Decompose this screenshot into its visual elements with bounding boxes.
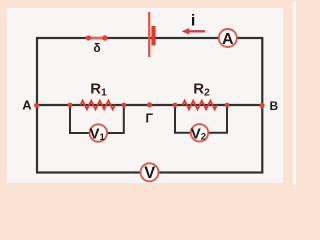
- wire V2 sub-loop right: [208, 105, 227, 133]
- svg-text:A: A: [222, 31, 234, 48]
- resistor R2: [183, 101, 217, 110]
- node Γ: [147, 102, 152, 107]
- current arrow: [182, 28, 205, 35]
- junction dot R1 left: [68, 103, 73, 108]
- svg-text:A: A: [22, 98, 32, 113]
- wire V1 sub-loop right: [107, 105, 124, 133]
- junction dot R2 right: [225, 103, 230, 108]
- svg-text:Γ: Γ: [146, 111, 154, 125]
- voltmeter V1: [90, 124, 107, 143]
- voltmeter V2: [191, 124, 208, 142]
- wire outer loop: [37, 38, 262, 173]
- wire V2 sub-loop left: [175, 105, 191, 133]
- svg-text:δ: δ: [93, 41, 100, 55]
- wire V1 sub-loop left: [70, 105, 90, 133]
- battery cell (top middle): [149, 12, 155, 57]
- junction dot R2 left: [173, 103, 178, 108]
- voltmeter V (bottom): [141, 163, 159, 182]
- svg-text:B: B: [269, 99, 278, 113]
- wire middle branch A to B: [37, 104, 262, 106]
- switch δ (closed): [86, 35, 108, 40]
- resistor R1: [81, 101, 116, 110]
- svg-text:V: V: [144, 164, 155, 182]
- ammeter A: [219, 29, 237, 48]
- node B: [259, 103, 264, 108]
- svg-text:i: i: [191, 13, 195, 30]
- node A: [34, 103, 39, 108]
- junction dot R1 right: [121, 103, 126, 108]
